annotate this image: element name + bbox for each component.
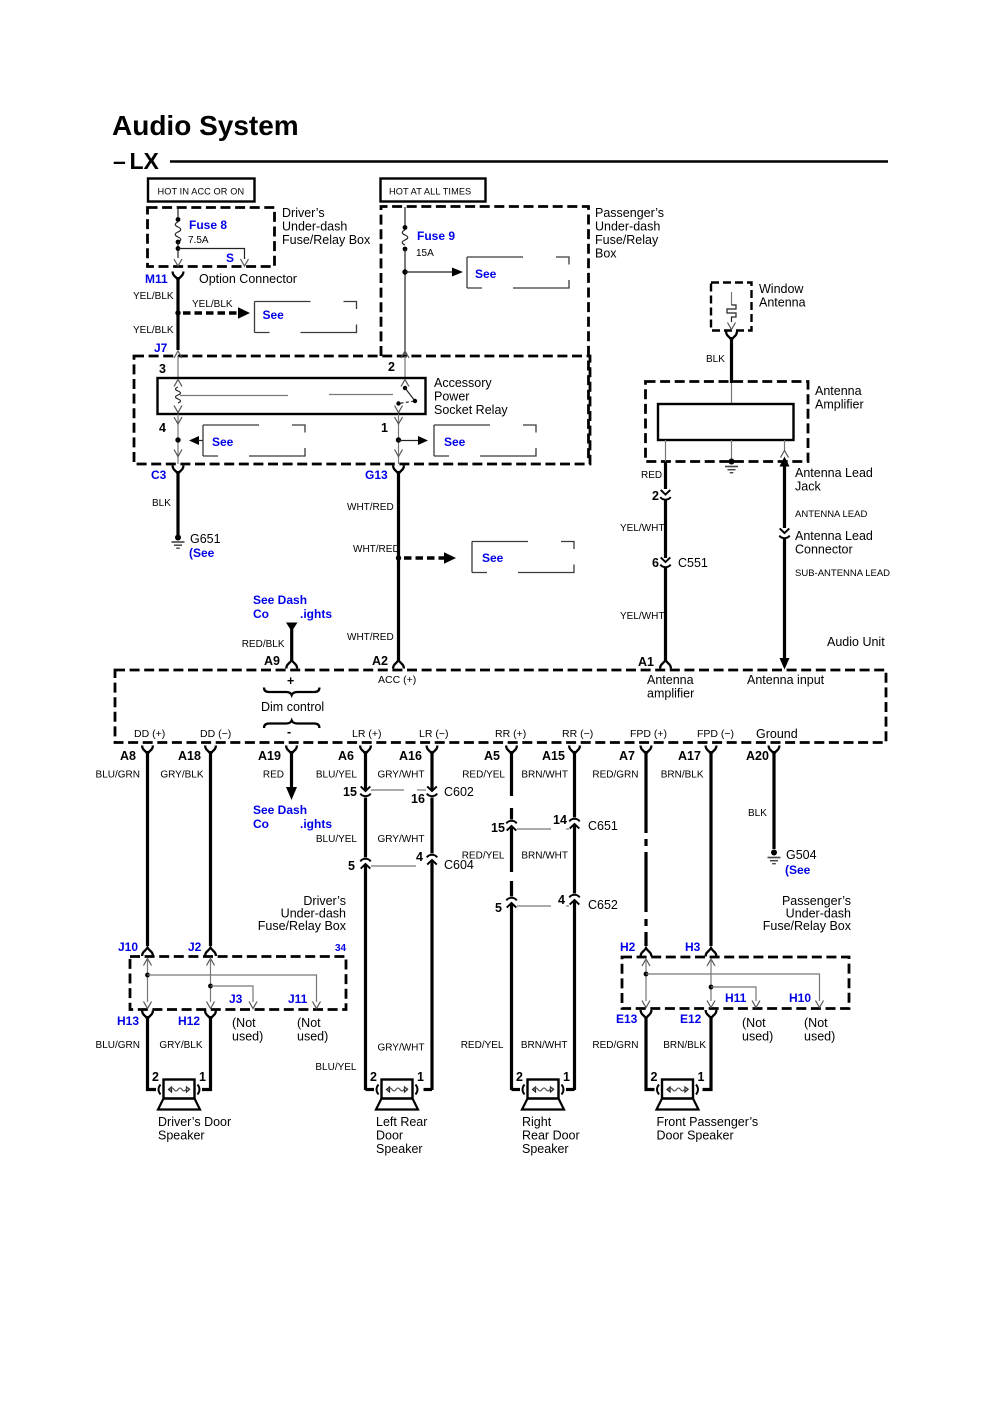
svg-text:4: 4 [416,850,423,864]
svg-text:2: 2 [388,360,395,374]
wire A6 BLU/YEL [364,751,367,1090]
speaker SP2 pin labels [370,1070,424,1084]
svg-text:A8: A8 [120,749,136,763]
svg-text:Audio Unit: Audio Unit [827,635,885,649]
front passenger's door speaker SP4 [657,1080,699,1110]
wire YEL/WHT to A1 [620,567,666,661]
svg-text:Fuse/Relay Box: Fuse/Relay Box [282,233,371,247]
connector J10 [118,940,153,956]
svg-text:2: 2 [370,1070,377,1084]
svg-text:Under-dash: Under-dash [282,220,347,234]
svg-text:DD (+): DD (+) [134,728,165,740]
svg-text:A1: A1 [638,655,654,669]
label Left Rear Door Speaker [376,1115,427,1156]
wire A16 GRY/WHT [430,751,433,1090]
connector A18 [178,746,216,764]
inline connector C652 [495,893,618,915]
label (Not used) J11 [297,1016,328,1044]
see dash controls lights reference lower [253,803,332,831]
svg-text:A17: A17 [678,749,701,763]
wire A19 RED with arrow [286,751,297,800]
svg-text:Antenna: Antenna [647,673,694,687]
svg-text:3: 3 [159,362,166,376]
left rear door speaker SP2 [376,1080,418,1110]
svg-text:C551: C551 [678,556,708,570]
label (Not used) H10 [804,1016,835,1044]
svg-text:RED/YEL: RED/YEL [461,1040,504,1051]
svg-text:(Not: (Not [232,1016,256,1030]
relay switch [395,380,418,413]
svg-text:1: 1 [381,421,388,435]
svg-text:GRY/WHT: GRY/WHT [377,1043,424,1054]
node H2 branch to H10 [644,972,824,1008]
connector A17 [678,746,716,764]
svg-text:Socket Relay: Socket Relay [434,403,508,417]
svg-text:Antenna: Antenna [815,384,862,398]
svg-text:RED/GRN: RED/GRN [592,1040,638,1051]
connector E13 [616,1010,651,1026]
node H3 branch to H11 [709,985,760,1008]
speaker SP4 pin labels [651,1070,705,1084]
label Right Rear Door Speaker [522,1115,580,1156]
svg-text:used): used) [804,1030,835,1044]
svg-text:used): used) [297,1030,328,1044]
wire RED amplifier pin 2 [641,462,671,504]
connector A16 [399,746,437,764]
window antenna (dashed box) [711,282,806,331]
svg-text:FPD (+): FPD (+) [630,728,667,740]
ground G504 [768,848,817,877]
dashed reference arrow WHT/RED [353,544,456,564]
H2 internal wire [642,959,650,1008]
svg-text:WHT/RED: WHT/RED [347,632,394,643]
label box HOT IN ACC OR ON [148,179,255,202]
svg-text:Fuse 8: Fuse 8 [189,218,227,232]
svg-text:15: 15 [343,785,357,799]
see reference box (fuse 9) [467,257,569,288]
wire J7 to relay coil [177,356,179,378]
wire E12 to speaker [703,1016,712,1090]
svg-text:J2: J2 [188,940,202,954]
svg-text:A18: A18 [178,749,201,763]
J2 internal wire [207,959,215,1009]
svg-text:A19: A19 [258,749,281,763]
pin 1 below relay [381,414,403,464]
wire A15 to speaker [566,1088,575,1091]
svg-text:14: 14 [553,813,567,827]
svg-text:Window: Window [759,282,804,296]
svg-text:+: + [287,674,294,688]
driver's junction dashed box [130,957,346,1010]
pin 2 arrow at box edge [401,351,409,358]
svg-text:ANTENNA LEAD: ANTENNA LEAD [795,509,867,520]
svg-text:H13: H13 [117,1014,139,1028]
ground G651 [172,532,221,560]
svg-text:C602: C602 [444,785,474,799]
node pin1 reference [396,436,428,445]
svg-text:Driver’s Door: Driver’s Door [158,1115,231,1129]
see reference box (pin 4) [203,425,305,456]
pin 4 below relay [159,414,182,464]
svg-text:WHT/RED: WHT/RED [353,544,400,555]
connector H2 [620,940,651,957]
svg-text:Left Rear: Left Rear [376,1115,427,1129]
dashed reference arrow [183,299,250,319]
svg-text:amplifier: amplifier [647,687,694,701]
connector A2 [372,654,404,669]
svg-text:H11: H11 [725,991,747,1005]
connector A7 [619,746,651,764]
speaker SP1 pin labels [152,1070,206,1084]
svg-text:FPD (−): FPD (−) [697,728,734,740]
svg-text:BLK: BLK [152,498,171,509]
driver's door speaker SP1 [158,1080,200,1110]
svg-text:BLK: BLK [748,808,767,819]
fuse F9 [402,207,408,356]
svg-text:Power: Power [434,390,469,404]
svg-text:YEL/BLK: YEL/BLK [133,291,174,302]
svg-text:GRY/BLK: GRY/BLK [159,1040,202,1051]
svg-text:RED/YEL: RED/YEL [462,851,505,862]
svg-text:LR (+): LR (+) [352,728,381,740]
node on YEL/BLK wire [175,310,180,315]
connector G13 [365,450,404,483]
svg-text:Co: Co [253,817,269,831]
fuse F8 [175,207,181,258]
svg-text:Under-dash: Under-dash [595,220,660,234]
svg-text:S: S [226,251,234,265]
svg-text:BRN/WHT: BRN/WHT [521,1040,568,1051]
antenna lead connector [779,528,873,556]
svg-text:2: 2 [516,1070,523,1084]
wire A8 BLU/GRN [146,751,149,946]
svg-text:See: See [212,435,234,449]
svg-text:Option Connector: Option Connector [199,272,297,286]
svg-text:Antenna: Antenna [759,296,806,310]
pin arrow into M11 [174,259,182,266]
connector J2 [188,940,216,956]
wire M11 to J7 (YEL/BLK) [176,277,179,350]
svg-text:Accessory: Accessory [434,376,492,390]
svg-text:Fuse/Relay: Fuse/Relay [595,233,659,247]
wire A5 RED/YEL (with breaks) [510,751,513,1090]
svg-text:G651: G651 [190,532,221,546]
svg-text:2: 2 [152,1070,159,1084]
antenna amplifier U1 body [658,404,794,440]
svg-text:(Not: (Not [804,1016,828,1030]
svg-text:J11: J11 [288,992,308,1006]
svg-text:(Not: (Not [742,1016,766,1030]
H3 internal wire [707,959,715,1008]
svg-text:Audio System: Audio System [112,110,299,141]
svg-text:1: 1 [698,1070,705,1084]
svg-text:(Not: (Not [297,1016,321,1030]
svg-text:HOT IN ACC OR ON: HOT IN ACC OR ON [158,187,245,197]
see reference box (YEL/BLK) [255,302,357,333]
connector C3 [151,450,183,483]
svg-text:G13: G13 [365,468,388,482]
label (Not used) H11 [742,1016,773,1044]
svg-text:1: 1 [417,1070,424,1084]
inline connector C604 [348,850,474,873]
connector E12 [680,1010,716,1026]
svg-text:A2: A2 [372,654,388,668]
node J10 branch to J11 [145,973,320,1009]
svg-text:BRN/WHT: BRN/WHT [521,770,568,781]
svg-text:GRY/WHT: GRY/WHT [377,770,424,781]
svg-text:used): used) [232,1030,263,1044]
wire A18 GRY/BLK [209,751,212,946]
svg-text:4: 4 [159,421,166,435]
svg-text:BLU/GRN: BLU/GRN [96,1040,140,1051]
svg-text:15: 15 [491,821,505,835]
svg-text:H10: H10 [789,991,811,1005]
svg-text:Speaker: Speaker [376,1142,423,1156]
audio unit dashed box [115,670,886,743]
relay coil [174,380,182,413]
connector A19 [258,746,297,764]
svg-text:WHT/RED: WHT/RED [347,502,394,513]
svg-text:BLU/YEL: BLU/YEL [315,1062,357,1073]
connector A9 [264,654,297,669]
right rear door speaker SP3 [522,1080,564,1110]
inline connector C602 [343,785,474,806]
svg-text:Right: Right [522,1115,552,1129]
svg-text:1: 1 [199,1070,206,1084]
relay contact line left [180,395,288,397]
svg-text:H3: H3 [685,940,701,954]
svg-text:Fuse 9: Fuse 9 [417,229,455,243]
svg-text:Antenna input: Antenna input [747,673,825,687]
connector C551 pin 6 [652,556,708,570]
svg-text:Connector: Connector [795,543,853,557]
svg-text:SUB-ANTENNA LEAD: SUB-ANTENNA LEAD [795,568,890,579]
svg-text:Door: Door [376,1129,403,1143]
wire A5 to speaker [512,1088,521,1091]
svg-text:Door Speaker: Door Speaker [657,1129,734,1143]
wire sub-antenna lead [780,538,790,670]
svg-text:A7: A7 [619,749,635,763]
label Driver's Door Speaker [158,1115,231,1143]
connector A1 [638,655,671,669]
connector A5 [484,746,517,764]
svg-text:BLU/YEL: BLU/YEL [316,834,358,845]
svg-text:RR (+): RR (+) [495,728,526,740]
wire C3 BLK to ground [176,471,179,535]
svg-text:1: 1 [563,1070,570,1084]
svg-text:A6: A6 [338,749,354,763]
svg-text:BLU/GRN: BLU/GRN [96,770,140,781]
svg-text:See: See [444,435,466,449]
svg-text:used): used) [742,1030,773,1044]
svg-text:See: See [263,308,285,322]
svg-text:BLU/YEL: BLU/YEL [316,770,358,781]
connector H12 [178,1011,216,1029]
node J2 branch to J3 [208,984,257,1009]
svg-text:M11: M11 [145,272,168,286]
connector A6 [338,746,371,764]
svg-text:YEL/WHT: YEL/WHT [620,611,664,622]
label (Not used) J3 [232,1016,263,1044]
svg-text:Dim control: Dim control [261,700,324,714]
svg-text:16: 16 [411,792,425,806]
pin 3 arrow at box edge [174,351,182,358]
connector below window antenna [726,332,737,341]
svg-text:YEL/BLK: YEL/BLK [133,325,174,336]
wire into amplifier [731,383,733,404]
connector A8 [120,746,153,764]
label Front Passenger's Door Speaker [657,1115,759,1143]
svg-text:Ground: Ground [756,727,798,741]
svg-text:H12: H12 [178,1014,200,1028]
svg-text:YEL/WHT: YEL/WHT [620,523,664,534]
svg-text:Rear Door: Rear Door [522,1129,580,1143]
svg-text:(See: (See [189,546,215,560]
svg-text:BRN/WHT: BRN/WHT [521,851,568,862]
svg-text:Driver’s: Driver’s [282,206,325,220]
wire H12 to speaker [202,1016,211,1090]
passenger's under-dash fuse/relay box (dashed, open bottom-left) [381,206,664,462]
svg-text:Box: Box [595,247,617,261]
connector H13 [117,1011,153,1029]
svg-text:A15: A15 [542,749,565,763]
wire A7 RED/GRN (with breaks) [644,751,647,946]
svg-text:6: 6 [652,556,659,570]
wire A16 to speaker [424,1088,433,1091]
pin arrow S into option connector [241,259,249,266]
antenna element symbol [727,292,736,330]
connector M11 [145,272,183,287]
svg-text:BRN/BLK: BRN/BLK [663,1040,706,1051]
svg-text:C652: C652 [588,898,618,912]
svg-text:RED: RED [263,770,284,781]
svg-text:A5: A5 [484,749,500,763]
svg-text:GRY/WHT: GRY/WHT [377,834,424,845]
svg-text:BLK: BLK [706,354,725,365]
svg-text:Speaker: Speaker [158,1129,205,1143]
reference arrow to see box [405,268,463,277]
relay K1 body [158,378,426,414]
see dash controls lights reference upper [253,593,332,661]
wire G13 WHT/RED down to A2 [397,471,400,661]
node pin4 reference [175,436,203,445]
dim control [261,674,324,739]
svg-text:BRN/BLK: BRN/BLK [661,770,704,781]
svg-text:J7: J7 [154,341,168,355]
svg-text:G504: G504 [786,848,817,862]
svg-text:A20: A20 [746,749,769,763]
antenna lead jack arrow [780,457,873,529]
svg-text:ACC (+): ACC (+) [378,674,416,686]
svg-text:.ights: .ights [300,607,332,621]
svg-text:4: 4 [558,893,565,907]
accessory power socket relay outer dashed box [134,356,590,464]
relay contact line right [329,394,393,396]
svg-text:2: 2 [652,489,659,503]
see reference box (pin 1) [434,425,536,456]
wire E13 to speaker [646,1016,655,1090]
svg-text:2: 2 [651,1070,658,1084]
svg-text:5: 5 [348,859,355,873]
svg-text:J3: J3 [229,992,243,1006]
svg-text:Front Passenger’s: Front Passenger’s [657,1115,759,1129]
connector A20 [746,746,779,764]
svg-text:-: - [287,725,291,739]
see reference box (WHT/RED) [472,542,574,573]
svg-text:Speaker: Speaker [522,1142,569,1156]
amplifier ground pin [725,440,738,473]
label Passenger's Under-dash Fuse/Relay Box [763,894,852,933]
wire A15 BRN/WHT [573,751,576,1090]
svg-text:LR (−): LR (−) [419,728,448,740]
svg-text:A9: A9 [264,654,280,668]
connector A15 [542,746,580,764]
wire A6 to speaker [366,1088,375,1091]
J10 internal wire [144,959,152,1009]
node fuse9 branch [402,269,407,274]
wire YEL/WHT to C551 [620,500,666,558]
svg-text:(See: (See [785,863,811,877]
antenna amplifier dashed box [646,382,864,462]
svg-text:Antenna Lead: Antenna Lead [795,529,873,543]
svg-text:GRY/BLK: GRY/BLK [160,770,203,781]
svg-text:Fuse/Relay Box: Fuse/Relay Box [258,919,347,933]
svg-text:E13: E13 [616,1012,638,1026]
svg-text:See: See [482,551,504,565]
heading rule [170,160,888,162]
svg-text:See Dash: See Dash [253,593,307,607]
node G13 reference [396,555,401,560]
svg-text:Fuse/Relay Box: Fuse/Relay Box [763,919,852,933]
driver's under-dash fuse/relay box (dashed) [148,208,275,267]
svg-text:See: See [475,267,497,281]
label box HOT AT ALL TIMES [381,179,486,202]
svg-text:Co: Co [253,607,269,621]
svg-text:34: 34 [335,943,347,954]
svg-text:E12: E12 [680,1012,702,1026]
svg-text:Amplifier: Amplifier [815,398,864,412]
speaker SP3 pin labels [516,1070,570,1084]
svg-text:RED: RED [641,470,662,481]
svg-text:7.5A: 7.5A [188,235,209,246]
svg-text:DD (−): DD (−) [200,728,231,740]
svg-text:J10: J10 [118,940,138,954]
svg-text:.ights: .ights [300,817,332,831]
svg-text:RED/YEL: RED/YEL [462,770,505,781]
svg-text:– LX: – LX [113,148,160,174]
svg-text:YEL/BLK: YEL/BLK [192,299,233,310]
wire fuse9 to relay switch [404,356,406,378]
svg-text:Jack: Jack [795,480,821,494]
node S branch [176,246,245,265]
wire BLK window antenna to amplifier [730,337,733,383]
amplifier output pin [781,440,789,458]
connector H3 [685,940,716,957]
svg-text:H2: H2 [620,940,636,954]
svg-text:RED/BLK: RED/BLK [242,639,285,650]
label Driver's Under-dash Fuse/Relay Box [258,894,347,933]
svg-text:C651: C651 [588,819,618,833]
svg-text:5: 5 [495,901,502,915]
svg-text:See Dash: See Dash [253,803,307,817]
inline connector C651 [491,813,618,835]
svg-text:RR (−): RR (−) [562,728,593,740]
svg-text:Antenna Lead: Antenna Lead [795,466,873,480]
svg-text:A16: A16 [399,749,422,763]
svg-text:HOT AT ALL TIMES: HOT AT ALL TIMES [389,187,471,197]
passenger's junction dashed box [622,957,849,1009]
wire A17 BRN/BLK [709,751,712,946]
